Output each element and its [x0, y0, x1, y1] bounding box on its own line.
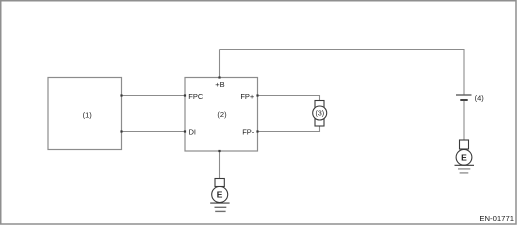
svg-text:(4): (4) [475, 93, 485, 102]
svg-text:(1): (1) [83, 111, 93, 120]
wire box2 bottom to ground E [219, 151, 221, 179]
box component (1) [48, 78, 122, 150]
junction tick box2 bottom [218, 150, 220, 152]
junction tick box2 FP- [256, 130, 258, 132]
svg-text:(3): (3) [316, 111, 325, 118]
svg-text:FP-: FP- [242, 127, 255, 136]
ground E left connector square [215, 179, 224, 187]
fuel pump (3) motor circle [313, 106, 327, 120]
ground E right line 1 [455, 164, 475, 166]
junction tick box2 FP+ [256, 94, 258, 96]
junction tick box2 +B [218, 76, 220, 78]
svg-text:E: E [217, 190, 223, 200]
wire battery to ground E [463, 101, 465, 141]
fuel pump (3) bottom terminal [315, 119, 324, 127]
svg-text:FP+: FP+ [240, 92, 255, 101]
ground E right circle [456, 149, 472, 165]
junction tick box2 DI [184, 130, 186, 132]
battery (4) long plate [456, 94, 472, 96]
wire FP- to pump [258, 126, 320, 132]
svg-text:FPC: FPC [188, 92, 204, 101]
fuel pump (3) top terminal [315, 101, 324, 108]
svg-text:EN-01771: EN-01771 [479, 214, 514, 223]
ground E left line 1 [210, 202, 229, 204]
wire top horizontal run to battery [220, 50, 465, 95]
wire FP+ to pump [258, 96, 320, 101]
ground E right line 3 [460, 172, 469, 174]
junction tick box2 FPC [184, 94, 186, 96]
ground E left line 3 [215, 210, 225, 212]
battery (4) short plate [460, 99, 467, 101]
svg-text:(2): (2) [217, 110, 227, 119]
svg-text:DI: DI [189, 127, 197, 136]
wire +B up from box2 [219, 50, 221, 78]
ground E left line 2 [215, 206, 227, 208]
box component (2) fuel pump controller [185, 78, 258, 152]
junction tick box1 DI [120, 130, 122, 132]
junction tick box1 FPC [120, 94, 122, 96]
wire box1 to box2 (DI) [122, 131, 186, 133]
ground E left circle [212, 187, 228, 203]
ground E right connector square [460, 140, 469, 149]
svg-text:+B: +B [215, 80, 224, 89]
svg-text:E: E [461, 152, 467, 162]
wire box1 to box2 (FPC) [122, 95, 186, 97]
ground E right line 2 [458, 168, 470, 170]
